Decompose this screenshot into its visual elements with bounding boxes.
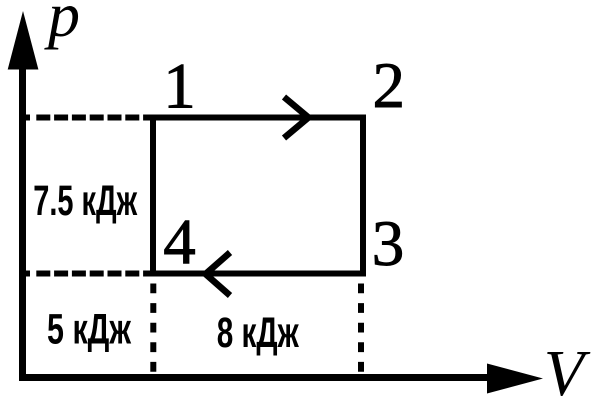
svg-text:p: p	[44, 0, 80, 50]
arrow on process 3-4 (leftward chevron)	[206, 253, 231, 296]
V axis (horizontal)	[19, 374, 492, 381]
dashed volume line at V2	[358, 284, 364, 375]
p axis arrowhead	[8, 11, 39, 70]
arrow on process 1-2 (rightward chevron)	[284, 97, 309, 138]
svg-text:1: 1	[163, 51, 196, 123]
dashed pressure line at p1 (stub at axis)	[19, 115, 30, 121]
cycle rectangle 1-2-3-4	[153, 118, 363, 274]
svg-text:8 кДж: 8 кДж	[217, 309, 300, 357]
dashed volume line at V1	[150, 284, 156, 375]
svg-text:2: 2	[372, 50, 405, 122]
svg-text:V: V	[544, 337, 591, 409]
V axis arrowhead	[487, 364, 543, 394]
svg-text:4: 4	[163, 207, 196, 279]
p axis (vertical)	[19, 60, 26, 381]
svg-text:7.5 кДж: 7.5 кДж	[33, 176, 137, 224]
dashed pressure line at p4	[36, 271, 150, 277]
svg-text:3: 3	[372, 208, 405, 280]
dashed pressure line at p4 (stub at axis)	[19, 271, 30, 277]
dashed pressure line at p1	[36, 115, 150, 121]
svg-text:5 кДж: 5 кДж	[47, 306, 132, 353]
